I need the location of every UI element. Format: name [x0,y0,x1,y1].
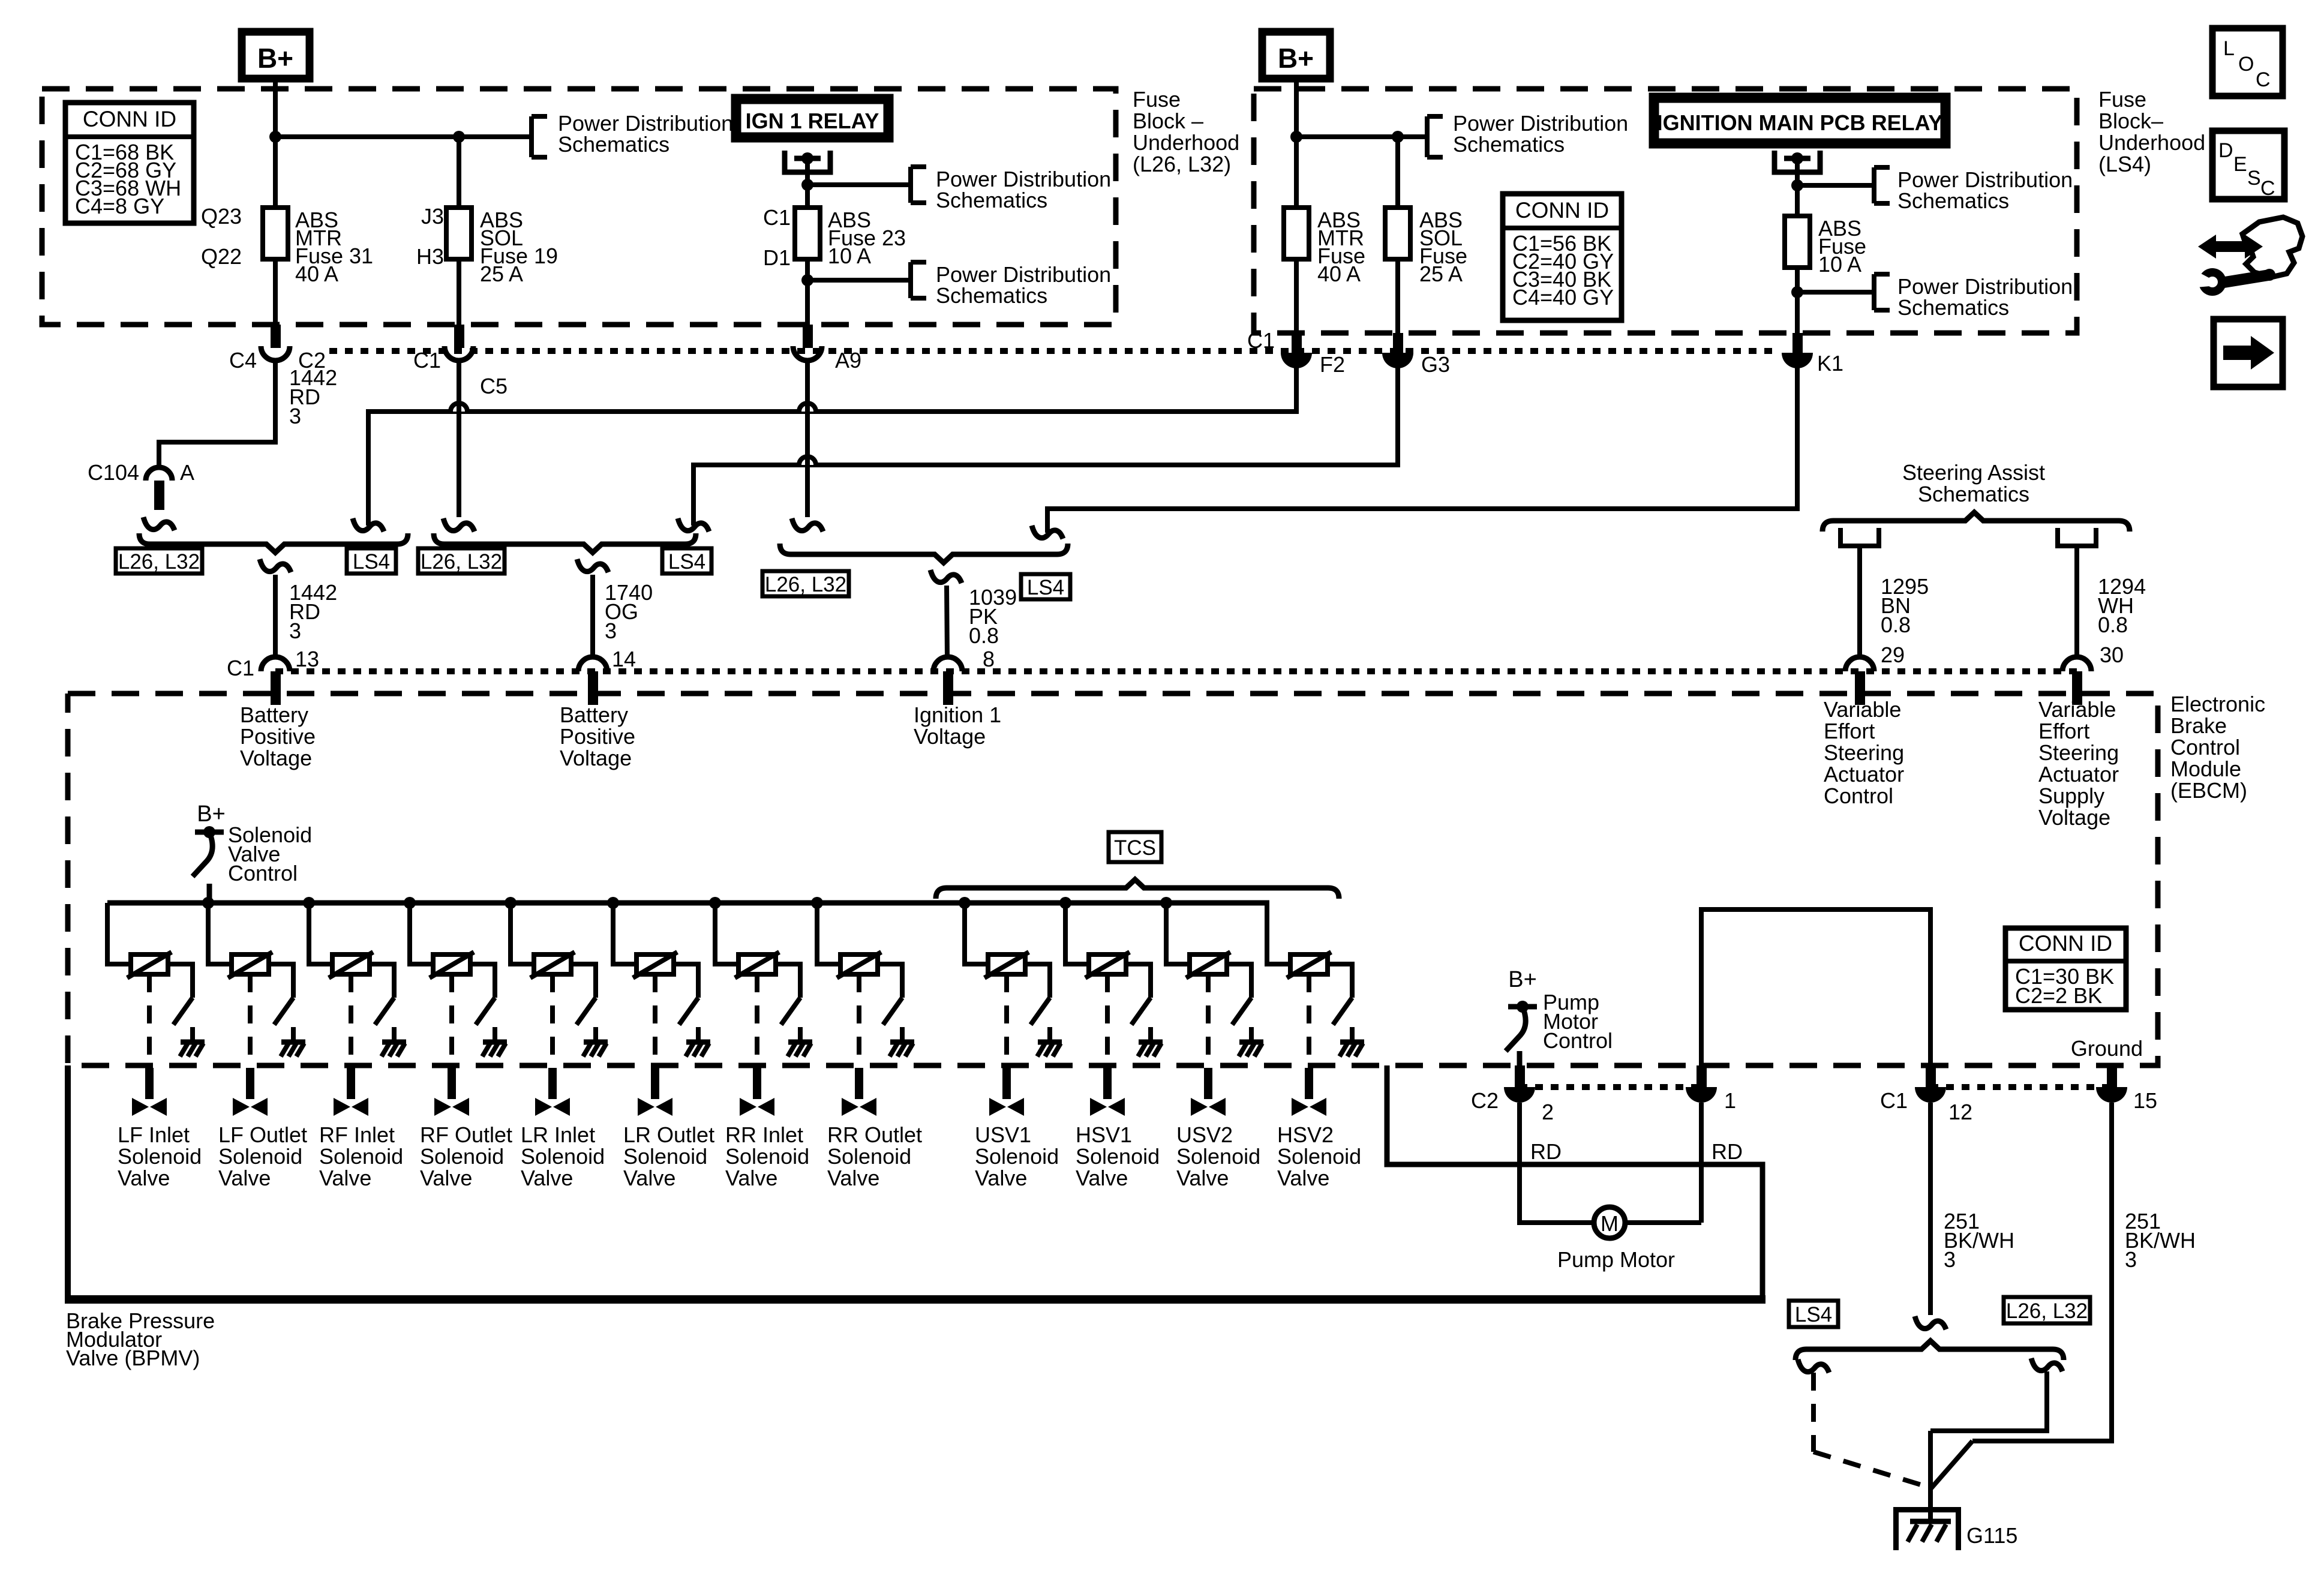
solenoid driver RR outlet [811,897,823,909]
wire F2 branch horizontal [368,366,1296,526]
svg-text:C1: C1 [1247,328,1275,353]
svg-text:3: 3 [289,404,301,428]
svg-text:Solenoid: Solenoid [975,1144,1059,1169]
wire 1740 OG 3 to pin 14 [590,575,595,658]
svg-text:C4: C4 [229,348,257,373]
wire ABS SOL fuse down to G3 [1395,259,1400,335]
svg-text:Supply: Supply [2038,784,2104,808]
svg-text:LS4: LS4 [353,550,390,574]
connector C1/F2 [1292,333,1302,353]
icon LOC box [2212,28,2283,96]
EBCM internal ground wire pin1 to pin12 [1701,909,1930,1065]
icon forward arrow box [2214,319,2283,387]
svg-text:25 A: 25 A [480,262,523,286]
fuse ABS MTR Fuse 40A (LS4) [1284,208,1309,259]
svg-text:CONN ID: CONN ID [1515,198,1609,223]
svg-text:Schematics: Schematics [1453,132,1565,157]
solenoid driver LF outlet [202,897,214,909]
svg-text:M: M [1601,1211,1619,1236]
svg-text:(EBCM): (EBCM) [2170,778,2247,803]
valve symbol USV1 solenoid valve [989,1098,1006,1116]
svg-text:LR Outlet: LR Outlet [623,1122,714,1147]
merge brace 1 (1442 RD) [139,533,408,553]
junction below fuse 23 [801,274,813,286]
wire K1 branch horizontal [1047,366,1797,533]
wire fuse23 down [805,259,810,327]
monitor line LR outlet [653,974,657,1064]
split brace (ground wires) [1795,1341,2064,1360]
driver ground USV1 [1038,1040,1062,1045]
svg-text:LS4: LS4 [668,550,705,574]
driver switch LR outlet [679,998,698,1025]
svg-text:8: 8 [983,647,995,671]
svg-text:15: 15 [2133,1088,2157,1113]
steering assist brace [1822,512,2130,532]
splice bow LS4 ground path [1798,1359,1829,1373]
power distribution schematics reference bracket 4 [1425,116,1430,157]
svg-text:C2=2 BK: C2=2 BK [2015,983,2102,1008]
solenoid driver LR inlet [505,897,517,909]
driver switch USV1 [1031,998,1050,1025]
solenoid driver USV1 [959,897,971,909]
svg-text:10 A: 10 A [828,244,871,268]
hop over A9 wire [799,403,816,412]
svg-text:Block –: Block – [1133,109,1203,133]
driver switch RF inlet [375,998,394,1025]
svg-text:Valve: Valve [420,1166,472,1190]
svg-text:Solenoid: Solenoid [319,1144,403,1169]
svg-text:RR Inlet: RR Inlet [725,1122,803,1147]
dashed wire LS4 ground path [1811,1373,1816,1452]
svg-text:C1: C1 [227,656,254,680]
svg-text:Schematics: Schematics [936,283,1047,308]
power distribution schematics reference bracket 3 [908,262,913,298]
connector A9 [803,325,813,348]
hop over C5 wire [451,403,467,412]
wire fuse 10A down [1795,268,1800,335]
svg-text:Electronic: Electronic [2170,692,2265,716]
svg-text:L26, L32: L26, L32 [765,573,846,596]
svg-text:Effort: Effort [2038,719,2089,743]
svg-text:RF Outlet: RF Outlet [420,1122,512,1147]
driver switch RF outlet [476,998,495,1025]
fuse block - underhood (L26,L32) dashed box [42,89,1116,325]
monitor line RF inlet [349,974,353,1064]
splice bow K1 end [1032,526,1063,539]
svg-text:Solenoid: Solenoid [725,1144,809,1169]
pin C1/12 ground [1926,1065,1936,1087]
svg-text:Valve: Valve [1076,1166,1128,1190]
svg-text:14: 14 [612,647,636,671]
svg-text:Fuse: Fuse [2098,87,2146,112]
driver switch LR inlet [577,998,596,1025]
splice bow brace3 out [930,570,962,583]
svg-text:Control: Control [1824,784,1893,808]
driver ground RF outlet [483,1040,507,1045]
wire pin15 diagonal to ground node [1930,1441,1972,1489]
svg-text:Battery: Battery [240,703,308,727]
svg-text:Battery: Battery [560,703,628,727]
svg-text:RD: RD [1530,1139,1562,1164]
driver ground RR outlet [890,1040,914,1045]
svg-text:0.8: 0.8 [2098,613,2128,637]
wire 1295 BN 0.8 to pin 29 [1857,546,1862,658]
solenoid driver USV2 [1160,897,1172,909]
svg-text:USV2: USV2 [1176,1122,1233,1147]
fuse ABS SOL Fuse 25A (LS4) [1395,137,1400,208]
wire relay to fuse 23 [805,161,810,208]
svg-text:Fuse: Fuse [1133,87,1181,112]
solenoid driver LF inlet [107,903,131,964]
svg-text:Underhood: Underhood [1133,130,1239,155]
svg-text:Solenoid: Solenoid [420,1144,504,1169]
svg-text:Schematics: Schematics [1897,295,2009,320]
monitor line RR outlet [857,974,861,1064]
CONN ID table (EBCM) [2005,928,2126,1010]
tag LS4 (ground) [1789,1301,1838,1327]
junction node at ABS SOL fuse 19 tap [453,131,465,143]
svg-text:HSV2: HSV2 [1277,1122,1334,1147]
monitor line LF inlet [147,974,152,1064]
junction above fuse 23 [801,179,813,191]
driver switch HSV1 [1131,998,1151,1025]
svg-text:Solenoid: Solenoid [118,1144,202,1169]
svg-text:K1: K1 [1817,351,1843,376]
solenoid driver RF inlet [303,897,315,909]
splice bow pin12 [1915,1316,1946,1329]
splice bow from C5 [443,518,475,532]
solenoid driver HSV1 [1059,897,1071,909]
driver ground HSV2 [1340,1040,1364,1045]
svg-text:LR Inlet: LR Inlet [521,1122,595,1147]
valve symbol RF outlet solenoid valve [434,1098,451,1116]
svg-text:13: 13 [295,647,319,671]
icon adjust-wrench [2198,235,2263,259]
svg-text:3: 3 [605,619,617,643]
monitor line HSV2 [1307,974,1311,1064]
pin 14 [578,657,607,671]
svg-text:Valve: Valve [623,1166,675,1190]
svg-text:C1: C1 [763,205,791,230]
wire 1294 WH 0.8 to pin 30 [2074,546,2079,658]
junction right B+ bus [1290,131,1302,143]
svg-text:L26, L32: L26, L32 [118,550,200,574]
svg-text:Block–: Block– [2098,109,2163,133]
relay pin symbol (IGN 1) [785,151,830,172]
svg-text:USV1: USV1 [975,1122,1031,1147]
fuse ABS MTR Fuse 31 40A [263,208,288,259]
wire ground node down to G115 [1928,1431,1933,1521]
EBCM connector C1 dotted line [275,668,2082,674]
monitor line RR inlet [755,974,759,1064]
svg-text:Schematics: Schematics [1897,188,2009,213]
driver ground HSV1 [1139,1040,1163,1045]
driver ground LF outlet [281,1040,305,1045]
svg-text:L26, L32: L26, L32 [2006,1299,2088,1323]
svg-text:Positive: Positive [560,724,635,749]
svg-text:Voltage: Voltage [914,724,986,749]
pigtail left (1295) [1840,528,1879,546]
svg-text:29: 29 [1881,643,1905,667]
wire A9 down [805,361,810,517]
svg-text:Control: Control [2170,735,2240,760]
CONN ID table (left block) [65,103,194,223]
svg-text:RF Inlet: RF Inlet [319,1122,395,1147]
driver switch LF inlet [173,998,193,1025]
svg-text:Module: Module [2170,757,2241,781]
svg-text:Steering: Steering [2038,740,2119,765]
svg-text:C104: C104 [88,460,139,485]
pin 1 pump motor [1697,1065,1707,1087]
relay pin symbol (ignition main) [1774,151,1820,172]
pin 29 [1845,657,1874,671]
B+ terminal (left) [242,32,310,79]
svg-text:B+: B+ [197,801,226,827]
svg-text:Valve: Valve [725,1166,777,1190]
valve symbol LF inlet solenoid valve [132,1098,149,1116]
solenoid driver RF outlet [404,897,416,909]
svg-text:RR Outlet: RR Outlet [827,1122,922,1147]
driver ground LF inlet [181,1040,205,1045]
svg-text:2: 2 [1542,1100,1554,1124]
pin 13 [261,657,290,671]
svg-text:C: C [2260,177,2275,200]
svg-text:Actuator: Actuator [2038,762,2119,786]
monitor line USV1 [1004,974,1009,1064]
merge brace 3 (1039 PK) [780,544,1068,563]
svg-text:C4=40 GY: C4=40 GY [1512,285,1614,310]
svg-text:Voltage: Voltage [240,746,312,770]
wire L26,L32 ground path [1930,1371,2047,1431]
svg-text:Valve: Valve [1176,1166,1229,1190]
monitor line HSV1 [1105,974,1110,1064]
wire 1039 PK 0.8 to pin 8 [947,586,947,658]
svg-text:Solenoid: Solenoid [827,1144,911,1169]
driver switch RR inlet [781,998,800,1025]
svg-text:G3: G3 [1421,352,1450,377]
splice bow G3 end [678,518,709,532]
valve symbol RR outlet solenoid valve [842,1098,858,1116]
svg-text:Valve: Valve [975,1166,1027,1190]
power distribution schematics reference bracket 1 [529,116,534,157]
pin 8 [933,657,962,671]
driver ground LR inlet [584,1040,608,1045]
power distribution schematics reference bracket 5 [1872,167,1876,203]
splice bow brace2 out [577,559,608,572]
solenoid bus bar [107,900,1269,906]
svg-text:Pump Motor: Pump Motor [1557,1247,1675,1272]
svg-text:Variable: Variable [1824,697,1901,722]
pin C2/2 pump motor feed [1515,1065,1525,1087]
svg-text:Schematics: Schematics [936,188,1047,212]
solenoid driver LR outlet [607,897,619,909]
wire pin15 down 251 BK/WH [1972,1103,2112,1441]
valve symbol USV2 solenoid valve [1191,1098,1208,1116]
junction right SOL fuse tap [1392,131,1404,143]
svg-text:L: L [2223,37,2235,60]
valve symbol LR outlet solenoid valve [638,1098,654,1116]
wire B+ right down [1294,79,1299,208]
wire pump motor to pin1 [1625,1220,1701,1225]
svg-text:B+: B+ [1508,967,1537,992]
fuse ABS Fuse 23 10A [795,208,820,259]
splice bow brace1 out [260,559,291,572]
wire G3 branch horizontal [693,366,1398,526]
junction below fuse 10A [1791,286,1803,298]
TCS tag box [1109,832,1161,862]
ground G115 [1893,1507,1961,1512]
svg-text:L26, L32: L26, L32 [421,550,502,574]
svg-text:Solenoid: Solenoid [521,1144,605,1169]
svg-text:J3: J3 [421,204,444,229]
svg-text:Valve (BPMV): Valve (BPMV) [66,1346,200,1370]
svg-text:30: 30 [2100,643,2124,667]
svg-text:Valve: Valve [118,1166,170,1190]
svg-text:Underhood: Underhood [2098,130,2205,155]
driver ground RF inlet [382,1040,406,1045]
svg-text:H3: H3 [416,244,444,269]
svg-text:Schematics: Schematics [1918,482,2029,506]
wire to power distribution ref (left) [275,134,532,139]
svg-text:LF Inlet: LF Inlet [118,1122,190,1147]
svg-text:Q22: Q22 [201,244,242,269]
driver ground USV2 [1239,1040,1263,1045]
svg-text:3: 3 [289,619,301,643]
driver switch HSV2 [1333,998,1352,1025]
svg-text:C5: C5 [480,374,508,398]
svg-text:Voltage: Voltage [2038,805,2110,830]
svg-text:Schematics: Schematics [558,132,669,157]
svg-text:10 A: 10 A [1818,252,1861,277]
svg-text:3: 3 [2125,1247,2137,1272]
monitor line RF outlet [449,974,454,1064]
svg-text:40 A: 40 A [295,262,338,286]
fuse ABS SOL Fuse 19 25A [457,137,461,208]
wire pin12 down 251 BK/WH [1928,1103,1933,1315]
wire B+ down to junction [273,79,278,208]
svg-text:F2: F2 [1320,352,1345,377]
svg-text:Valve: Valve [521,1166,573,1190]
svg-text:C2: C2 [1471,1088,1499,1113]
fuse ABS Fuse 10A [1785,216,1810,268]
svg-text:Variable: Variable [2038,697,2116,722]
icon DESC box [2212,131,2284,199]
junction node B+ bus left [269,131,281,143]
pin 15 ground [2107,1065,2117,1087]
svg-text:IGN 1 RELAY: IGN 1 RELAY [746,109,879,133]
svg-text:IGNITION MAIN PCB RELAY: IGNITION MAIN PCB RELAY [1657,110,1943,135]
monitor line LF outlet [248,974,253,1064]
valve symbol LF outlet solenoid valve [233,1098,250,1116]
svg-text:Solenoid: Solenoid [218,1144,302,1169]
merge brace 2 (1740 OG) [434,533,696,553]
tag L26,L32 (ground) [2004,1297,2090,1323]
svg-text:LS4: LS4 [1795,1303,1832,1326]
svg-text:Steering: Steering [1824,740,1904,765]
svg-text:Valve: Valve [218,1166,271,1190]
svg-text:A: A [180,460,194,485]
pigtail right (1294) [2058,528,2096,546]
solenoid driver HSV2 [1267,903,1290,964]
wire to power distribution ref (right) [1296,134,1427,139]
driver switch LF outlet [274,998,293,1025]
valve symbol RF inlet solenoid valve [334,1098,350,1116]
driver switch USV2 [1232,998,1251,1025]
svg-text:S: S [2247,167,2261,190]
splice bow F2 end [353,518,384,532]
connector G3 [1393,333,1403,353]
svg-text:Valve: Valve [827,1166,879,1190]
svg-text:C4=8 GY: C4=8 GY [75,194,164,218]
TCS brace [936,879,1339,899]
svg-text:12: 12 [1948,1100,1972,1124]
dotted connector line top row [329,348,1779,354]
junction above fuse 10A [1791,179,1803,191]
svg-text:TCS: TCS [1114,836,1156,860]
svg-text:D: D [2218,139,2233,162]
svg-text:C1: C1 [1880,1088,1908,1113]
svg-text:Solenoid: Solenoid [623,1144,707,1169]
svg-text:Voltage: Voltage [560,746,632,770]
wire C2 to C104 [159,361,275,467]
svg-text:Ground: Ground [2071,1036,2143,1061]
svg-text:3: 3 [1944,1247,1956,1272]
pin 30 [2062,657,2091,671]
svg-text:B+: B+ [1278,43,1314,74]
svg-text:O: O [2238,53,2254,76]
svg-text:Q23: Q23 [201,204,242,229]
svg-text:Control: Control [228,861,298,885]
pump motor M [1594,1207,1625,1238]
wire fuse31 to connector C4/C2 [273,259,278,327]
power distribution schematics reference bracket 6 [1872,274,1876,310]
driver switch RR outlet [883,998,902,1025]
svg-text:Positive: Positive [240,724,316,749]
relay IGNITION MAIN PCB RELAY [1654,98,1945,143]
valve symbol HSV1 solenoid valve [1090,1098,1107,1116]
dotted line C2-1 [1520,1084,1701,1090]
valve symbol HSV2 solenoid valve [1292,1098,1308,1116]
svg-text:(LS4): (LS4) [2098,152,2151,176]
svg-text:Solenoid: Solenoid [1176,1144,1260,1169]
svg-text:(L26, L32): (L26, L32) [1133,152,1231,176]
wire 1442 RD 3 to pin 13 [273,575,278,658]
svg-text:CONN ID: CONN ID [2019,931,2112,956]
splice bow L26,L32 ground path [2031,1358,2062,1371]
wire fuse19 to connector C1/C5 [457,259,461,327]
svg-text:40 A: 40 A [1317,262,1361,286]
driver ground LR outlet [686,1040,710,1045]
svg-text:G115: G115 [1966,1523,2017,1548]
connector C1/C5 [454,325,464,348]
svg-text:E: E [2233,153,2247,176]
svg-text:0.8: 0.8 [969,623,999,648]
hop over A9 wire 2 [799,457,816,465]
svg-text:Brake: Brake [2170,713,2227,738]
driver ground RR inlet [788,1040,812,1045]
dotted line 12-15 [1930,1084,2112,1090]
wire ABS MTR fuse down to F2 [1294,259,1299,335]
svg-text:LF Outlet: LF Outlet [218,1122,307,1147]
svg-text:Solenoid: Solenoid [1277,1144,1361,1169]
power distribution schematics reference bracket 2 [908,167,913,203]
B+ terminal (right) [1262,32,1330,79]
svg-text:RD: RD [1712,1139,1743,1164]
wire C5 down [457,361,461,517]
svg-text:Effort: Effort [1824,719,1875,743]
splice bow from C104 [143,517,175,530]
wire relay to fuse 10A [1795,161,1800,216]
